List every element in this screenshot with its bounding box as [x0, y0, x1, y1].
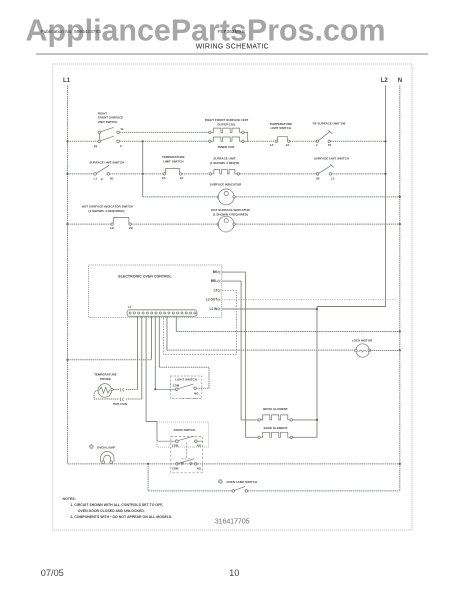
svg-text:HOT SURFACE INDICATOR: HOT SURFACE INDICATOR: [211, 208, 251, 212]
junction L1 sense rung: [66, 359, 68, 361]
resistor surface unit: [209, 173, 211, 175]
wire broil to L2 vertical: [293, 419, 318, 421]
svg-text:LT: LT: [214, 288, 218, 292]
wire into door switch com top: [157, 440, 176, 441]
junction rung at N: [399, 330, 401, 332]
connector pos con: [120, 398, 124, 401]
lamp oven lamp: [102, 461, 105, 464]
svg-text:LIGHT SWITCH: LIGHT SWITCH: [175, 378, 197, 382]
wire coil outputs join: [244, 132, 248, 141]
svg-text:UNIT SWITCH: UNIT SWITCH: [98, 120, 118, 124]
box door switch outer: [157, 422, 209, 447]
svg-text:L1: L1: [94, 176, 98, 180]
wire hot surface indicator to N: [235, 223, 399, 225]
wire switch to temperature limit switch: [110, 173, 164, 175]
wire L1 to surface unit switch: [68, 173, 94, 175]
L2 bus wire: [317, 86, 386, 438]
svg-text:P: P: [101, 178, 103, 182]
svg-text:10: 10: [229, 568, 239, 578]
header rule bottom: [36, 53, 428, 56]
wire door switch no stub: [197, 440, 203, 442]
svg-text:TEMPERATURE: TEMPERATURE: [269, 122, 292, 126]
svg-text:L2: L2: [331, 176, 335, 180]
svg-text:RF SURFACE UNIT SW: RF SURFACE UNIT SW: [313, 121, 346, 125]
box electronic oven control: [89, 265, 222, 318]
svg-text:ELECTRONIC OVEN CONTROL: ELECTRONIC OVEN CONTROL: [118, 275, 172, 279]
label oven lamp: [89, 444, 94, 449]
wire vertical junction branch: [142, 141, 144, 197]
svg-text:SURFACE UNIT: SURFACE UNIT: [213, 157, 235, 161]
wire surface indicator to N: [235, 196, 399, 198]
svg-text:(1 SHOWN 4 REQUIRED): (1 SHOWN 4 REQUIRED): [213, 212, 248, 216]
switch oven lamp switch: [232, 490, 235, 493]
switch right front surface unit switch: [98, 131, 101, 134]
wire L2 OUT pin: [222, 299, 397, 301]
connector probe right: [120, 388, 124, 391]
wire lamp switch rung: [148, 464, 232, 491]
wire switch to inner coil: [119, 140, 208, 142]
resistor temperature probe: [98, 384, 112, 398]
wire to L2 bus: [330, 140, 385, 142]
svg-text:POS CON: POS CON: [113, 402, 127, 406]
junction light switch com: [154, 388, 156, 390]
wire BRL pin to broil element feed: [222, 281, 258, 420]
junction L2 in: [316, 308, 318, 310]
junction bottom rung lamp branch: [147, 463, 149, 465]
switch temperature limit switch right: [275, 140, 277, 142]
svg-text:TEMPERATURE: TEMPERATURE: [162, 155, 185, 159]
box light switch: [171, 376, 202, 399]
wire lock motor to N: [369, 350, 400, 352]
svg-text:OVEN LAMP SWITCH: OVEN LAMP SWITCH: [227, 480, 257, 484]
switch door switch lower: [176, 463, 179, 466]
box door switch inner: [171, 437, 203, 473]
wire BK pin to bake element feed: [222, 272, 258, 437]
junction L1 rung A: [66, 140, 68, 142]
svg-text:SURFACE UNIT SWITCH: SURFACE UNIT SWITCH: [89, 161, 124, 165]
wire probe loop pos con: [94, 390, 119, 399]
svg-text:316417705: 316417705: [215, 517, 250, 526]
wire to L2 bus rung 2: [332, 173, 386, 175]
pin connector mark: [218, 289, 220, 292]
wire to surface indicator: [143, 196, 219, 198]
junction lock motor at N: [399, 349, 401, 351]
svg-text:COM: COM: [173, 384, 180, 388]
svg-text:FEF362MXS: FEF362MXS: [218, 29, 245, 35]
wire to light switch com: [155, 388, 175, 390]
svg-text:1B: 1B: [110, 226, 114, 230]
N bus wire: [399, 86, 401, 491]
motor lock motor: [356, 344, 369, 357]
svg-text:2. COMPONENTS WITH * DO NOT: 2. COMPONENTS WITH * DO NOT APPEAR ON AL…: [70, 515, 172, 519]
lamp surface indicator: [217, 196, 219, 198]
svg-text:L1: L1: [128, 305, 132, 309]
svg-text:LIMIT SWITCH: LIMIT SWITCH: [163, 159, 184, 163]
svg-text:LIMIT SWITCH: LIMIT SWITCH: [271, 126, 292, 130]
connector strip electronic oven control: [127, 310, 197, 317]
wire pin drop to light switch com: [154, 316, 156, 389]
wire pin drop to light switch no: [158, 316, 160, 367]
svg-text:NOTES:: NOTES:: [63, 497, 76, 501]
svg-text:RIGHT FRONT SURFACE UNIT: RIGHT FRONT SURFACE UNIT: [205, 118, 249, 122]
svg-text:DOOR SWITCH: DOOR SWITCH: [174, 428, 196, 432]
svg-text:OVEN LAMP: OVEN LAMP: [97, 446, 115, 450]
resistor right front surface unit outer coil: [209, 131, 211, 133]
wire to surface unit resistor: [182, 173, 209, 175]
svg-text:BK: BK: [213, 270, 218, 274]
svg-text:P2: P2: [94, 144, 98, 148]
linkage light switch: [182, 397, 200, 399]
junction bottom rung at N: [399, 463, 401, 465]
switch surface unit switch left: [94, 173, 97, 176]
svg-text:LOCK MOTOR: LOCK MOTOR: [352, 338, 373, 342]
pin connector mark: [218, 308, 220, 311]
wire to RF surface unit switch: [290, 140, 316, 142]
junction rung A to vertical: [142, 140, 144, 142]
svg-text:SURFACE UNIT SWITCH: SURFACE UNIT SWITCH: [314, 157, 349, 161]
svg-text:BRL: BRL: [211, 279, 218, 283]
pin connector mark: [218, 298, 220, 301]
junction L1 rung 2: [66, 173, 68, 175]
junction broil at L2 vertical: [316, 419, 318, 421]
switch surface unit switch right: [316, 173, 319, 176]
svg-text:COM: COM: [172, 466, 179, 470]
svg-text:PROBE: PROBE: [100, 377, 111, 381]
wire pin drop to lock motor rung: [166, 316, 168, 350]
junction hot surface indicator at N: [399, 223, 401, 225]
wire LT pin: [164, 290, 237, 354]
svg-text:P1: P1: [328, 143, 332, 147]
svg-text:Publication No. 5995423783: Publication No. 5995423783: [41, 29, 102, 35]
wire pin drop to door switch: [146, 316, 157, 440]
wire L1 to right front surface unit switch: [68, 140, 99, 142]
wire rung to N: [176, 331, 399, 333]
pin connector mark: [218, 271, 220, 274]
svg-text:H1: H1: [110, 176, 114, 180]
svg-text:BAKE ELEMENT: BAKE ELEMENT: [264, 426, 288, 430]
svg-text:OUTER COIL: OUTER COIL: [217, 122, 236, 126]
wire resistor to surface unit switch right: [240, 173, 317, 175]
wire coils to temperature limit switch: [248, 140, 276, 142]
svg-text:L1: L1: [63, 78, 71, 84]
svg-text:H2: H2: [316, 176, 320, 180]
svg-text:(1 SHOWN, 4 REQUIRED): (1 SHOWN, 4 REQUIRED): [89, 209, 125, 213]
svg-text:07/05: 07/05: [41, 568, 64, 578]
L1 bus wire: [67, 86, 69, 464]
svg-text:L2: L2: [381, 78, 389, 84]
svg-text:L2 OUT: L2 OUT: [206, 298, 217, 302]
svg-text:OVEN DOOR CLOSED AND UNLOCKED.: OVEN DOOR CLOSED AND UNLOCKED.: [78, 509, 145, 513]
switch temperature limit switch left: [163, 173, 165, 175]
lamp hot surface indicator: [217, 223, 219, 225]
wire pin drop to N rung: [175, 316, 177, 331]
svg-text:HOT SURFACE INDICATOR SWITCH: HOT SURFACE INDICATOR SWITCH: [82, 205, 133, 209]
pin row circles: [129, 312, 131, 314]
junction L1 rung hot surface: [66, 223, 68, 225]
wire L2 IN pin to L2 bus: [222, 308, 317, 310]
svg-text:SURFACE INDICATOR: SURFACE INDICATOR: [210, 183, 242, 187]
wire L1 sense rung: [68, 359, 152, 361]
svg-text:BROIL ELEMENT: BROIL ELEMENT: [263, 407, 288, 411]
svg-text:TEMPERATURE: TEMPERATURE: [94, 373, 117, 377]
junction rung 2 to vertical: [142, 173, 144, 175]
svg-text:N: N: [398, 78, 402, 84]
svg-text:L2 IN: L2 IN: [210, 307, 218, 311]
wire probe right terminal: [113, 389, 119, 391]
junction surface indicator at N: [399, 196, 401, 198]
svg-text:RIGHT: RIGHT: [98, 111, 108, 115]
wire pin drop to pos con: [141, 316, 143, 399]
svg-text:INNER COIL: INNER COIL: [218, 145, 236, 149]
wire pin drop to L1 sense rung: [151, 316, 153, 360]
wire switch to outer coil: [119, 131, 208, 133]
switch RF surface unit sw: [316, 140, 318, 142]
wire lock motor rung left: [167, 349, 356, 351]
schematic frame: [53, 64, 412, 530]
svg-text:4a: 4a: [120, 127, 124, 131]
svg-text:1. CIRCUIT SHOWN WITH ALL CON: 1. CIRCUIT SHOWN WITH ALL CONTROLS SET T…: [70, 503, 163, 507]
junction rung A at L2: [384, 140, 386, 142]
svg-text:(1 SHOWN, 3 REQ'D): (1 SHOWN, 3 REQ'D): [210, 161, 240, 165]
wire switch to hot surface indicator: [131, 223, 218, 225]
wire bake to L2 vertical: [293, 436, 318, 438]
resistor right front surface unit inner coil: [209, 140, 211, 142]
pin connector mark: [218, 280, 220, 283]
svg-text:2B: 2B: [129, 226, 133, 230]
junction rung 2 at L2: [384, 173, 386, 175]
svg-text:FRONT SURFACE: FRONT SURFACE: [98, 116, 124, 120]
svg-text:COM: COM: [172, 443, 179, 447]
switch hot surface indicator switch: [111, 223, 113, 225]
wire pin drop to probe: [137, 316, 139, 389]
switch light switch: [176, 388, 179, 391]
switch door switch upper: [176, 440, 179, 443]
wire L1 to hot surface indicator switch: [68, 223, 111, 225]
wire bottom rung: [68, 463, 400, 465]
wire lamp switch to N: [248, 490, 400, 492]
linkage door switch: [181, 443, 191, 459]
